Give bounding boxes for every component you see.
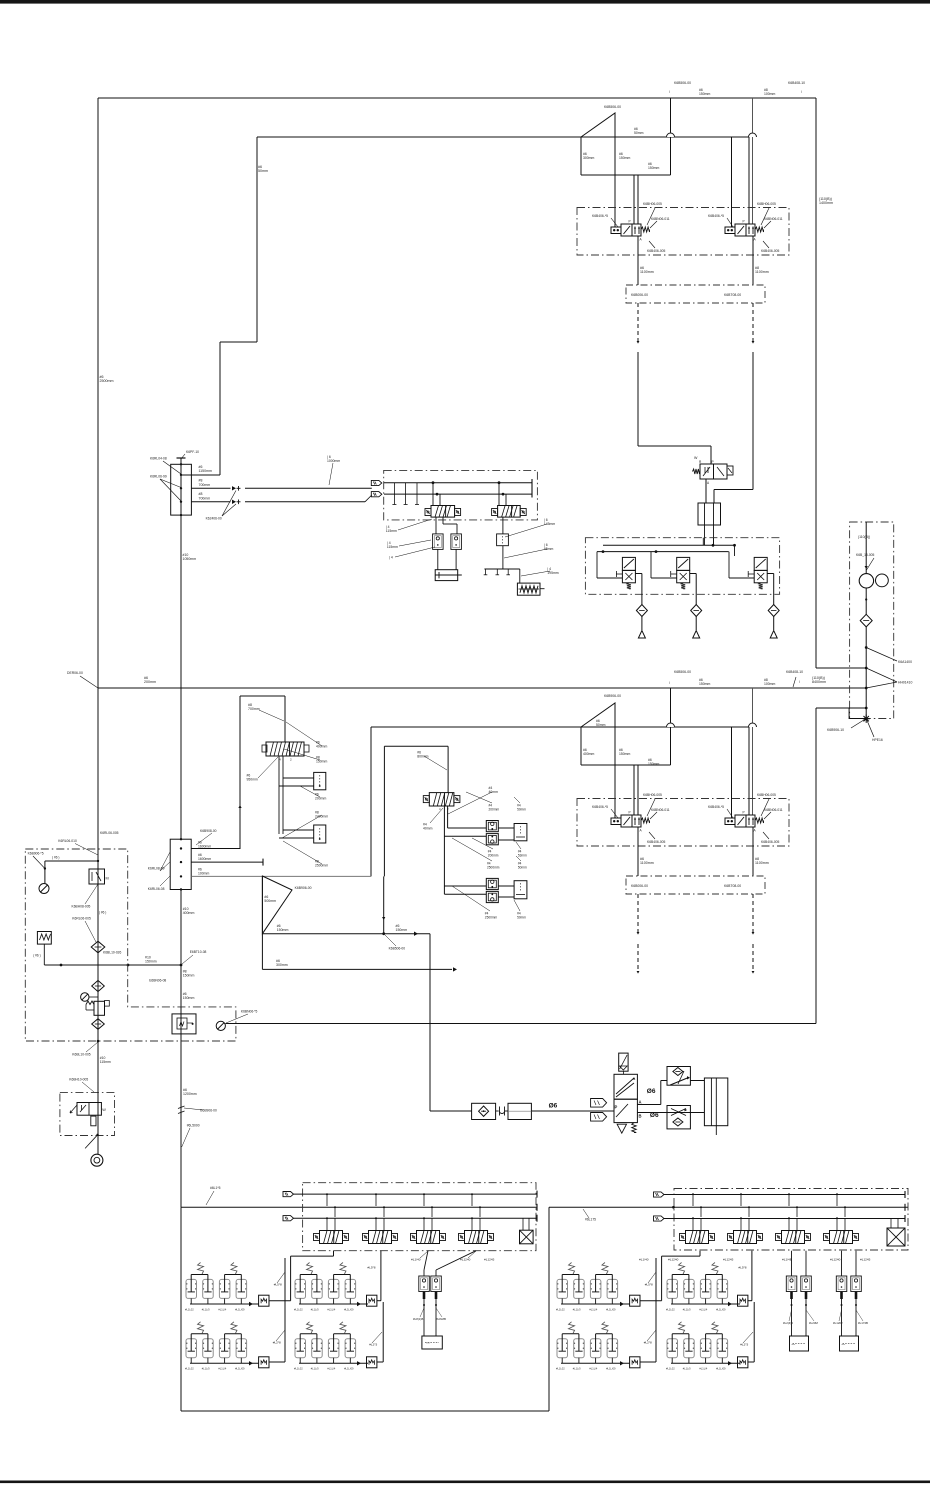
svg-text:1100mm: 1100mm [640, 270, 654, 274]
svg-text:K6B_13-005: K6B_13-005 [856, 553, 874, 557]
svg-text:700mm: 700mm [199, 496, 211, 500]
svg-text:K6B506-00: K6B506-00 [389, 947, 406, 951]
svg-text:K6B406-005: K6B406-005 [647, 840, 665, 844]
svg-text:400mm: 400mm [316, 745, 327, 749]
svg-text:K6BH06-005: K6BH06-005 [757, 793, 776, 797]
svg-text:P: P [629, 811, 631, 815]
svg-text:#L1/4B: #L1/4B [782, 1258, 792, 1262]
svg-text:#L1L/09: #L1L/09 [606, 1307, 616, 1311]
svg-text:115mm: 115mm [387, 545, 398, 549]
svg-text:#L1L02: #L1L02 [556, 1307, 565, 1311]
svg-text:150mm: 150mm [277, 928, 289, 932]
svg-text:95mm: 95mm [544, 547, 554, 551]
svg-text:#L1L02: #L1L02 [185, 1307, 194, 1311]
svg-text:K6B408-10: K6B408-10 [788, 81, 805, 85]
svg-text:#L1L02: #L1L02 [666, 1367, 675, 1371]
svg-text:150mm: 150mm [648, 166, 659, 170]
svg-text:#L1L/0: #L1L/0 [573, 1307, 581, 1311]
svg-text:K6B006-00: K6B006-00 [631, 293, 648, 297]
svg-text:#L1L02: #L1L02 [294, 1307, 303, 1311]
svg-text:#L1L/0: #L1L/0 [311, 1307, 319, 1311]
svg-text:#L5*8: #L5*8 [274, 1283, 282, 1287]
svg-text:50mm: 50mm [517, 915, 526, 919]
svg-text:#L1L/0: #L1L/0 [202, 1307, 210, 1311]
svg-text:#6L5000: #6L5000 [187, 1124, 200, 1128]
svg-text:1600mm: 1600mm [198, 857, 211, 861]
svg-text:****: **** [792, 1344, 796, 1347]
svg-text:400mm: 400mm [583, 752, 594, 756]
svg-text:K6BH06-005: K6BH06-005 [757, 202, 776, 206]
svg-text:( #6 ): ( #6 ) [99, 911, 106, 915]
svg-text:40mm: 40mm [423, 827, 433, 831]
svg-text:W: W [102, 1108, 106, 1112]
svg-text:#L1L02: #L1L02 [294, 1367, 303, 1371]
svg-text:150mm: 150mm [619, 156, 630, 160]
svg-text:1600mm: 1600mm [198, 845, 211, 849]
svg-text:700mm: 700mm [199, 483, 211, 487]
svg-text:K6B906-*5: K6B906-*5 [28, 852, 44, 856]
svg-text:#L1L/4: #L1L/4 [699, 1307, 707, 1311]
svg-text:E6BN06-08: E6BN06-08 [149, 979, 166, 983]
svg-text:K6PF-10: K6PF-10 [186, 450, 199, 454]
svg-text:(110(B)): (110(B)) [858, 535, 870, 539]
svg-text:1050mm: 1050mm [183, 557, 197, 561]
svg-text:K62406-00: K62406-00 [206, 517, 222, 521]
svg-text:#L1L/09: #L1L/09 [716, 1367, 726, 1371]
svg-text:K6B406-*5: K6B406-*5 [708, 805, 724, 809]
svg-text:P: P [743, 811, 745, 815]
svg-text:#L2*3: #L2*3 [369, 1343, 377, 1347]
svg-text:#L1L/09: #L1L/09 [716, 1307, 726, 1311]
svg-text:#L1L/0: #L1L/0 [311, 1367, 319, 1371]
svg-text:****: **** [842, 1344, 846, 1347]
svg-text:115mm: 115mm [386, 529, 397, 533]
svg-text:150mm: 150mm [699, 92, 710, 96]
svg-text:195mm: 195mm [547, 571, 558, 575]
svg-text:50mm: 50mm [634, 131, 644, 135]
svg-text:#L1L/4: #L1L/4 [327, 1307, 335, 1311]
svg-text:#L2*8: #L2*8 [644, 1341, 652, 1345]
svg-text:150mm: 150mm [183, 996, 195, 1000]
svg-text:1200mm: 1200mm [183, 1092, 197, 1096]
svg-text:150mm: 150mm [648, 762, 659, 766]
svg-text:/: / [669, 681, 670, 685]
svg-text:Ø6: Ø6 [650, 1112, 659, 1119]
svg-text:K6B406-*5: K6B406-*5 [592, 214, 608, 218]
svg-text:#L1245: #L1245 [860, 1258, 871, 1262]
svg-text:K6RL06-005: K6RL06-005 [72, 917, 91, 921]
svg-text:#L1/40: #L1/40 [639, 1258, 649, 1262]
svg-text:150mm: 150mm [145, 960, 157, 964]
svg-text:1150mm: 1150mm [199, 469, 212, 473]
svg-text:K6B406-005: K6B406-005 [761, 840, 779, 844]
svg-text:#6L1*5: #6L1*5 [210, 1186, 221, 1190]
svg-text:W: W [694, 456, 698, 460]
svg-text:150mm: 150mm [619, 752, 630, 756]
svg-text:M: M [106, 877, 109, 881]
svg-text:#L1L/0: #L1L/0 [202, 1367, 210, 1371]
svg-text:1100mm: 1100mm [755, 270, 769, 274]
svg-text:K6BH06-005: K6BH06-005 [643, 793, 662, 797]
svg-text:200mm: 200mm [144, 680, 156, 684]
svg-text:K6BH10-005: K6BH10-005 [69, 1078, 88, 1082]
svg-text:B: B [639, 1114, 642, 1119]
svg-text:400mm: 400mm [183, 911, 195, 915]
svg-text:100mm: 100mm [198, 872, 209, 876]
svg-text:300mm: 300mm [583, 156, 594, 160]
svg-text:K6B906-00: K6B906-00 [295, 886, 312, 890]
svg-text:150mm: 150mm [183, 974, 195, 978]
svg-text:K6BN06-011: K6BN06-011 [651, 808, 670, 812]
svg-text:K6B506-00: K6B506-00 [604, 105, 621, 109]
svg-text:53mm: 53mm [518, 853, 527, 857]
svg-text:#L1245: #L1245 [484, 1258, 495, 1262]
svg-text:#L1L/4: #L1L/4 [589, 1367, 597, 1371]
svg-text:#L5*8: #L5*8 [645, 1283, 653, 1287]
svg-text:#L5*8: #L5*8 [367, 1266, 375, 1270]
svg-text:150mm: 150mm [699, 682, 710, 686]
svg-text:#L1L/4: #L1L/4 [699, 1367, 707, 1371]
svg-text:K6B006-00: K6B006-00 [631, 884, 648, 888]
svg-text:115mm: 115mm [100, 1060, 111, 1064]
svg-text:200mm: 200mm [315, 797, 326, 801]
svg-text:8400mm: 8400mm [812, 680, 826, 684]
svg-text:#L1L/09: #L1L/09 [235, 1307, 245, 1311]
svg-text:#L1L02: #L1L02 [666, 1307, 675, 1311]
svg-text:HH01410: HH01410 [898, 681, 912, 685]
svg-text:2500mm: 2500mm [100, 379, 114, 383]
svg-text:#L1L/4: #L1L/4 [589, 1307, 597, 1311]
svg-text:Ø6: Ø6 [549, 1103, 558, 1110]
svg-text:K6B908-00: K6B908-00 [200, 829, 217, 833]
svg-text:1100mm: 1100mm [640, 861, 654, 865]
svg-text:P: P [712, 460, 714, 464]
svg-text:HPE16: HPE16 [872, 738, 883, 742]
svg-text:K6B906-10: K6B906-10 [827, 728, 844, 732]
svg-text:K6RL06-99: K6RL06-99 [150, 475, 167, 479]
svg-text:K6BT08-00: K6BT08-00 [724, 293, 741, 297]
svg-text:K6BL10-005: K6BL10-005 [72, 1053, 90, 1057]
svg-text:#L1L/4: #L1L/4 [218, 1307, 226, 1311]
svg-text:Ø6: Ø6 [647, 1088, 656, 1095]
svg-text:145mm: 145mm [544, 522, 555, 526]
svg-text:#L1L/4: #L1L/4 [327, 1367, 335, 1371]
svg-text:#L174B: #L174B [858, 1321, 868, 1325]
svg-text:#6L175: #6L175 [585, 1218, 596, 1222]
svg-text:#L1245: #L1245 [723, 1258, 734, 1262]
svg-text:#L2*8: #L2*8 [273, 1341, 281, 1345]
svg-text:( #6 ): ( #6 ) [33, 954, 40, 958]
svg-text:#L1L/0: #L1L/0 [683, 1307, 691, 1311]
svg-text:K6BN06-011: K6BN06-011 [764, 217, 783, 221]
svg-text:1400mm: 1400mm [819, 201, 833, 205]
svg-text:K6RL06-010: K6RL06-010 [58, 839, 77, 843]
svg-text:500mm: 500mm [264, 899, 276, 903]
svg-text:K6RL06-005: K6RL06-005 [100, 831, 119, 835]
svg-text:P: P [615, 1105, 618, 1110]
svg-text:K6BN06-*5: K6BN06-*5 [241, 1010, 258, 1014]
svg-text:1000mm: 1000mm [327, 459, 340, 463]
svg-text:#L1L/09: #L1L/09 [606, 1367, 616, 1371]
svg-text:#L1L/09: #L1L/09 [235, 1367, 245, 1371]
svg-text:#L1L/09: #L1L/09 [344, 1367, 354, 1371]
svg-text:700mm: 700mm [248, 707, 260, 711]
svg-text:2500mm: 2500mm [487, 865, 500, 869]
svg-text:50mm: 50mm [258, 169, 268, 173]
svg-text:| 4: | 4 [389, 556, 393, 560]
svg-text:/: / [801, 90, 802, 94]
svg-text:150mm: 150mm [316, 760, 327, 764]
svg-text:#L1240: #L1240 [830, 1258, 841, 1262]
svg-text:#L23M: #L23M [809, 1321, 818, 1325]
svg-text:#L2*3: #L2*3 [740, 1343, 748, 1347]
svg-text:P: P [629, 220, 631, 224]
svg-text:40mm: 40mm [489, 790, 499, 794]
svg-text:#L1240: #L1240 [668, 1258, 679, 1262]
svg-text:#L1L/0: #L1L/0 [683, 1367, 691, 1371]
svg-text:K6BH08-005: K6BH08-005 [72, 905, 91, 909]
svg-text:/: / [669, 90, 670, 94]
svg-text:#L8L8B: #L8L8B [436, 1317, 446, 1321]
svg-text:A: A [639, 1100, 642, 1105]
svg-text:1100mm: 1100mm [755, 861, 769, 865]
svg-text:K6B406-005: K6B406-005 [647, 249, 665, 253]
svg-text:K6BN06-011: K6BN06-011 [651, 217, 670, 221]
svg-text:K6BT08-00: K6BT08-00 [724, 884, 741, 888]
svg-text:100mm: 100mm [764, 92, 775, 96]
svg-text:#L1L/4: #L1L/4 [218, 1367, 226, 1371]
svg-text:50mm: 50mm [517, 807, 526, 811]
svg-text:DER06-00: DER06-00 [67, 671, 83, 675]
svg-text:K6BN06-011: K6BN06-011 [764, 808, 783, 812]
svg-text:#L5*8: #L5*8 [738, 1266, 746, 1270]
svg-text:200mm: 200mm [488, 853, 499, 857]
svg-text:K6BL10-026: K6BL10-026 [103, 951, 121, 955]
svg-text:( #6 ): ( #6 ) [52, 856, 59, 860]
svg-text:#L1202: #L1202 [833, 1321, 843, 1325]
svg-text:#L1L/0: #L1L/0 [573, 1367, 581, 1371]
svg-text:300mm: 300mm [276, 963, 288, 967]
svg-text:K6B906-00: K6B906-00 [604, 694, 621, 698]
svg-text:200mm: 200mm [489, 807, 500, 811]
svg-text:150mm: 150mm [396, 928, 408, 932]
svg-text:2500mm: 2500mm [485, 915, 498, 919]
svg-text:E6B906-00: E6B906-00 [200, 1109, 217, 1113]
svg-text:K6RL06-08: K6RL06-08 [148, 887, 165, 891]
svg-text:#L1L/09: #L1L/09 [344, 1307, 354, 1311]
svg-text:#L1/40: #L1/40 [411, 1258, 421, 1262]
svg-text:K6RL04-08: K6RL04-08 [150, 457, 167, 461]
svg-text:#L1L02: #L1L02 [185, 1367, 194, 1371]
svg-text:#L8(1)B: #L8(1)B [413, 1317, 423, 1321]
svg-text:K6B506-00: K6B506-00 [674, 81, 691, 85]
svg-text:K6B506-00: K6B506-00 [674, 670, 691, 674]
svg-text:#L2(4)5: #L2(4)5 [783, 1321, 793, 1325]
svg-text:K6A1400: K6A1400 [898, 660, 912, 664]
svg-text:K6B406-*5: K6B406-*5 [708, 214, 724, 218]
svg-text:****: **** [426, 1343, 430, 1346]
svg-text:100mm: 100mm [764, 682, 775, 686]
svg-text:#L1L02: #L1L02 [556, 1367, 565, 1371]
svg-text:K6B406-005: K6B406-005 [761, 249, 779, 253]
svg-text:950mm: 950mm [247, 778, 258, 782]
svg-text:E6BT10-08: E6BT10-08 [190, 950, 207, 954]
svg-text:/: / [799, 680, 800, 684]
svg-text:50mm: 50mm [518, 865, 527, 869]
svg-text:K6BH06-005: K6BH06-005 [643, 202, 662, 206]
svg-text:50mm: 50mm [596, 723, 606, 727]
svg-text:K6B408-10: K6B408-10 [786, 670, 803, 674]
svg-text:P: P [743, 220, 745, 224]
svg-text:K6B406-*5: K6B406-*5 [592, 805, 608, 809]
